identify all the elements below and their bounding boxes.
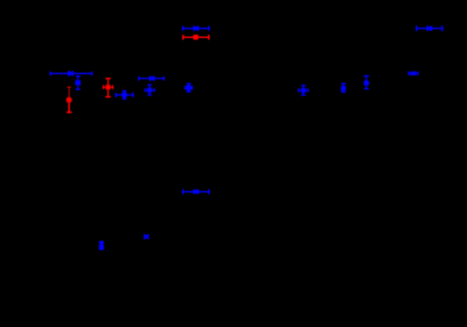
data point: blue square with vertical errorbar (right cluster) — [341, 84, 346, 92]
data point: blue x with small horizontal errorbar (upper right) — [409, 71, 418, 75]
data point: blue x marker (lower left) — [144, 235, 149, 239]
data point: blue star with x and y errorbars (right cluster) — [299, 86, 309, 96]
data point: red star with x and y errorbars — [103, 79, 112, 97]
legend sample: blue x-marker errorbar — [183, 26, 209, 31]
data point: blue x with horizontal errorbar (mid left) — [139, 76, 164, 80]
data point: blue star with x and y errorbars — [145, 85, 154, 95]
data point: red x with vertical errorbar — [66, 87, 72, 112]
data point: blue x with horizontal errorbar (top right) — [417, 26, 443, 32]
data point: blue square with x and y errorbars — [116, 91, 133, 99]
data point: blue x with wide horizontal errorbar (left cluster) — [50, 71, 92, 75]
data point: blue x and blue square stacked with vertical errorbar (lower left) — [99, 241, 104, 250]
data point: blue circle with x and y errorbars — [185, 84, 192, 92]
data point: two stacked blue squares with vertical errorbars — [364, 76, 369, 89]
data point: blue x with horizontal errorbar (row 2) — [183, 189, 209, 194]
data point: blue square with vertical errorbar — [75, 76, 81, 89]
legend sample: red square-marker errorbar — [183, 35, 209, 40]
